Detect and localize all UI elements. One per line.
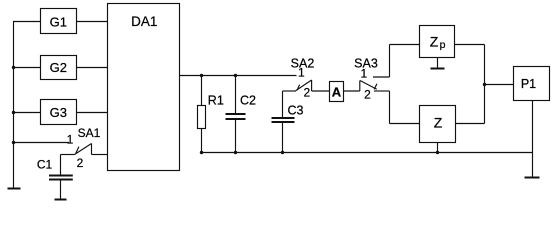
ground (left bus) xyxy=(8,188,21,190)
generator G2 xyxy=(41,56,77,80)
wire bottom bus xyxy=(202,152,533,154)
switch SA2 xyxy=(283,80,330,91)
node Z bottom junction xyxy=(436,151,439,154)
wire Zp to P1 vertical xyxy=(455,45,514,124)
ammeter A xyxy=(330,82,344,102)
wire Zp bottom stem xyxy=(437,58,439,69)
wire bus to SA1 pin 1 xyxy=(13,142,69,144)
wire G2 to DA1 xyxy=(77,67,108,69)
svg-text:2: 2 xyxy=(364,88,371,102)
capacitor C2 xyxy=(226,76,246,153)
svg-text:SA1: SA1 xyxy=(78,126,101,140)
wire bus to G3 xyxy=(13,112,41,114)
wire DA1 output bus xyxy=(180,75,297,77)
meter P1 xyxy=(514,67,550,101)
wire A to SA3 xyxy=(344,90,360,92)
svg-text:p: p xyxy=(440,39,446,51)
ground (P1) xyxy=(525,177,540,179)
svg-text:DA1: DA1 xyxy=(131,14,157,29)
generator G1 xyxy=(41,9,77,34)
svg-text:C3: C3 xyxy=(288,103,304,117)
svg-text:R1: R1 xyxy=(208,93,224,107)
switch SA1 xyxy=(61,144,108,155)
svg-text:G3: G3 xyxy=(50,105,67,120)
switch SA3 xyxy=(360,45,420,124)
wire G1 to DA1 xyxy=(77,21,108,23)
impedance Zp xyxy=(420,26,455,58)
svg-text:2: 2 xyxy=(303,85,310,99)
svg-text:Z: Z xyxy=(434,114,443,130)
svg-text:2: 2 xyxy=(77,156,84,170)
wire Z bottom stem xyxy=(437,143,439,153)
op-amp DA1 xyxy=(108,4,180,171)
svg-text:1: 1 xyxy=(298,65,305,79)
svg-text:1: 1 xyxy=(361,66,368,80)
ground (Zp) xyxy=(431,68,445,70)
svg-text:A: A xyxy=(332,85,342,100)
svg-text:Z: Z xyxy=(430,34,439,50)
wire G3 to DA1 xyxy=(77,112,108,114)
wire P1 bottom stem xyxy=(532,101,534,178)
capacitor C3 xyxy=(272,91,295,153)
svg-text:G2: G2 xyxy=(50,60,67,75)
impedance Z xyxy=(420,106,456,143)
svg-text:1: 1 xyxy=(67,132,74,146)
capacitor C1 xyxy=(49,155,73,200)
svg-text:C1: C1 xyxy=(37,158,53,172)
resistor R1 xyxy=(198,76,206,153)
wire bus to G2 xyxy=(13,67,41,69)
wire left bus vertical xyxy=(13,22,15,189)
node G2 junction xyxy=(12,66,15,69)
svg-text:G1: G1 xyxy=(50,14,67,29)
wire bus to G1 xyxy=(13,21,41,23)
svg-text:C2: C2 xyxy=(240,93,256,107)
node SA1 junction xyxy=(12,141,15,144)
generator G3 xyxy=(41,100,77,125)
node G3 junction xyxy=(12,111,15,114)
svg-text:P1: P1 xyxy=(521,77,536,91)
node P1 branch xyxy=(483,83,486,86)
ground (C1) xyxy=(55,199,67,201)
